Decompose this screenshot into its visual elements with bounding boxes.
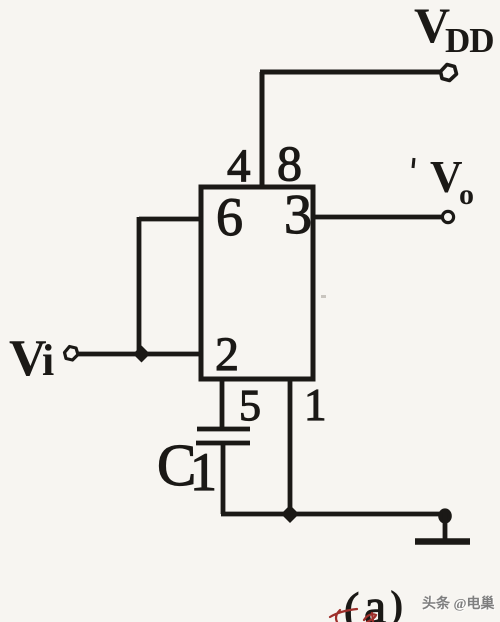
- wire pin 6 feedback horizontal: [139, 217, 203, 222]
- junction node at Vi / pin 6 feedback: [133, 346, 150, 363]
- wire capacitor to ground rail: [221, 443, 226, 514]
- ground symbol bar: [415, 538, 470, 545]
- wire stub to ground: [443, 513, 448, 539]
- IC U1 (555 timer body): [201, 187, 313, 379]
- wire VDD horizontal rail: [260, 70, 440, 75]
- wire pin 3 to output terminal: [313, 215, 442, 220]
- svg-text:3: 3: [284, 184, 312, 246]
- wire pin 1 down to ground rail: [288, 379, 293, 514]
- node blob at ground connection: [438, 508, 452, 523]
- svg-text:1: 1: [190, 442, 217, 502]
- red pen scribble near caption: [330, 609, 376, 622]
- terminal Vi: [65, 347, 79, 361]
- junction node pin 1 / ground rail: [281, 505, 299, 523]
- svg-text:V: V: [430, 152, 463, 202]
- svg-text:头条 @电巢: 头条 @电巢: [422, 595, 496, 612]
- wire pin 5 down to capacitor: [220, 379, 225, 429]
- svg-text:(: (: [344, 583, 359, 622]
- wire VDD vertical (pin 8 to top rail): [260, 72, 265, 187]
- capacitor C1 top plate: [197, 427, 250, 432]
- wire Vi input to pin 2: [77, 352, 201, 357]
- svg-text:DD: DD: [445, 21, 494, 60]
- wire pin 6 feedback vertical: [137, 217, 142, 354]
- svg-text:V: V: [9, 330, 47, 387]
- svg-text:1: 1: [304, 380, 327, 430]
- terminal Vo: [442, 211, 453, 222]
- svg-text:i: i: [42, 336, 54, 385]
- svg-text:4: 4: [227, 140, 251, 192]
- capacitor C1 bottom plate: [196, 441, 250, 446]
- svg-text:2: 2: [215, 328, 239, 381]
- svg-text:5: 5: [239, 381, 261, 430]
- svg-text:6: 6: [216, 187, 243, 247]
- terminal VDD: [441, 65, 457, 81]
- tick mark before Vo: [413, 158, 414, 168]
- wire ground rail bottom: [221, 512, 445, 517]
- svg-text:o: o: [459, 178, 474, 211]
- svg-text:): ): [390, 582, 403, 622]
- svg-text:8: 8: [277, 135, 302, 191]
